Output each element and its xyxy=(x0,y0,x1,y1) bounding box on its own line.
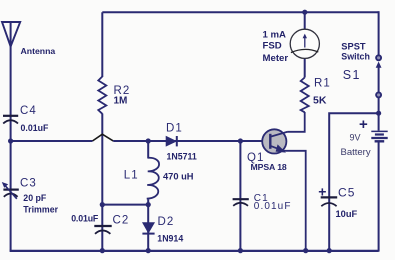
svg-text:Switch: Switch xyxy=(341,52,370,62)
svg-text:MPSA 18: MPSA 18 xyxy=(251,162,287,172)
wire C1 branch xyxy=(239,141,241,251)
svg-text:C2: C2 xyxy=(113,215,130,227)
svg-text:9V: 9V xyxy=(350,133,361,143)
wire right rail upper xyxy=(378,11,380,55)
wire C2 to L1 horizontal xyxy=(102,204,148,206)
svg-text:0.01uF: 0.01uF xyxy=(254,201,292,212)
wire right rail switch to battery xyxy=(378,98,380,131)
wire D2 branch xyxy=(147,205,149,251)
meter M1 1mA FSD xyxy=(290,29,319,58)
svg-text:10uF: 10uF xyxy=(336,209,358,219)
wire R2 top segment xyxy=(101,12,103,77)
capacitor C5 xyxy=(321,197,338,206)
svg-text:C5: C5 xyxy=(338,186,356,200)
node ground D2 xyxy=(146,248,151,253)
wire L1 branch top xyxy=(147,141,149,159)
transistor Q1 xyxy=(262,129,287,153)
wire Q1 emitter to ground xyxy=(284,151,306,251)
svg-text:S1: S1 xyxy=(343,68,361,82)
diode D1 xyxy=(166,136,177,146)
wire left antenna line xyxy=(10,22,12,251)
antenna xyxy=(2,22,20,47)
node ground emitter xyxy=(303,248,308,253)
svg-text:1N5711: 1N5711 xyxy=(167,152,197,162)
svg-text:Trimmer: Trimmer xyxy=(23,205,58,215)
node left C4 C3 junction xyxy=(8,138,13,143)
node C2 junction xyxy=(100,202,105,207)
svg-text:0.01uF: 0.01uF xyxy=(71,213,99,223)
svg-text:L1: L1 xyxy=(124,170,139,182)
wire meter top lead xyxy=(304,12,306,29)
wire R1 to Q1 collector xyxy=(288,112,305,132)
svg-text:470 uH: 470 uH xyxy=(163,172,194,182)
capacitor C2 xyxy=(94,226,111,234)
svg-text:+: + xyxy=(359,116,368,133)
node switch battery junction xyxy=(376,111,381,116)
wire hop over R2 line xyxy=(93,134,114,141)
node ground C5 xyxy=(327,248,332,253)
svg-text:0.01uF: 0.01uF xyxy=(21,123,49,133)
node top rail meter junction xyxy=(302,10,307,15)
resistor R2 xyxy=(98,77,106,114)
svg-text:20 pF: 20 pF xyxy=(23,193,47,203)
svg-text:FSD: FSD xyxy=(263,41,282,52)
node ground C1 xyxy=(238,248,243,253)
wire meter to R1 xyxy=(304,58,306,77)
wire horizontal node A right segment to Q1 base xyxy=(113,140,270,142)
svg-text:C3: C3 xyxy=(20,178,37,190)
wire L1 bottom xyxy=(147,200,149,205)
inductor L1 xyxy=(147,158,159,199)
svg-text:+: + xyxy=(318,184,326,200)
svg-text:1N914: 1N914 xyxy=(157,234,183,244)
svg-text:Meter: Meter xyxy=(263,53,289,64)
svg-text:1M: 1M xyxy=(114,96,128,107)
resistor R1 xyxy=(301,78,309,113)
node C1 base junction xyxy=(238,138,243,143)
svg-text:SPST: SPST xyxy=(341,41,366,51)
wire top rail xyxy=(102,11,378,13)
wire R2 to C2 to ground vertical xyxy=(101,114,103,251)
svg-text:D1: D1 xyxy=(166,123,183,135)
capacitor C1 xyxy=(233,199,249,206)
svg-text:1 mA: 1 mA xyxy=(263,29,287,40)
wire switch to battery-left branch xyxy=(329,113,378,250)
battery B1 xyxy=(371,131,387,141)
wire horizontal node A left segment xyxy=(11,140,93,142)
node L1 D2 junction xyxy=(146,202,151,207)
svg-text:D2: D2 xyxy=(158,216,175,228)
switch S1 xyxy=(376,55,382,97)
wire bottom rail xyxy=(10,250,379,252)
node ground C2 xyxy=(100,248,105,253)
svg-text:R1: R1 xyxy=(314,77,331,89)
svg-text:Battery: Battery xyxy=(341,147,371,158)
diode D2 xyxy=(142,223,154,234)
svg-text:C4: C4 xyxy=(20,105,37,117)
trimmer capacitor C3 xyxy=(2,182,19,199)
svg-text:Antenna: Antenna xyxy=(21,46,56,56)
svg-text:5K: 5K xyxy=(313,94,327,106)
wire right rail battery to ground xyxy=(378,142,380,252)
capacitor C4 xyxy=(3,116,18,124)
node L1 D1 junction xyxy=(146,138,151,143)
